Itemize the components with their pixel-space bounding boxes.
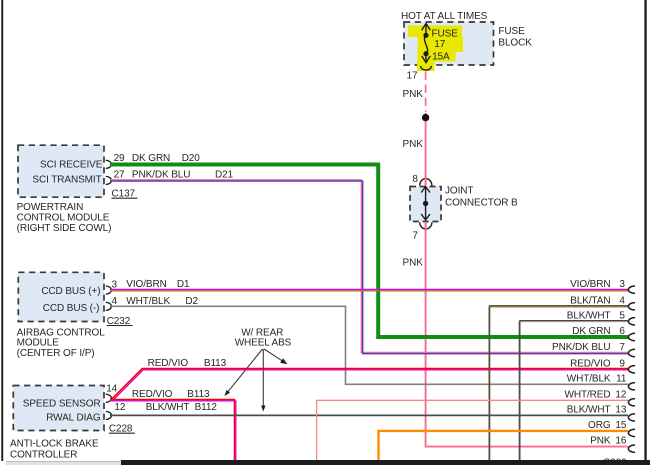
joint connector B box — [410, 187, 441, 222]
svg-text:VIO/BRN: VIO/BRN — [126, 279, 166, 290]
svg-text:6: 6 — [619, 326, 625, 337]
svg-text:BLOCK: BLOCK — [498, 38, 532, 49]
svg-text:15A: 15A — [432, 52, 450, 63]
svg-text:16: 16 — [615, 436, 626, 447]
fuse F17 15A symbol — [424, 24, 427, 62]
callout arrow to upper RED/VIO — [264, 349, 282, 361]
bottom gray bar — [6, 461, 121, 465]
svg-text:PNK: PNK — [590, 436, 611, 447]
PCM pin 29 connector arc — [106, 160, 112, 168]
svg-text:SPEED SENSOR: SPEED SENSOR — [23, 399, 101, 410]
svg-text:JOINT: JOINT — [445, 185, 473, 196]
svg-text:7: 7 — [619, 342, 625, 353]
wire RED/VIO B113 upper two-tone — [112, 369, 628, 400]
svg-text:D1: D1 — [177, 279, 190, 290]
wire VIO/BRN D1 two-tone — [110, 289, 628, 291]
speed pin 14 connector arc — [106, 394, 112, 402]
fuse block bottom connector arc — [421, 66, 432, 70]
wire BLK/WHT B112 — [110, 414, 628, 416]
svg-text:PNK/DK BLU: PNK/DK BLU — [132, 170, 190, 181]
wire PNK through connector gaps — [425, 176, 427, 187]
svg-text:SCI TRANSMIT: SCI TRANSMIT — [32, 175, 101, 186]
svg-text:BLK/WHT: BLK/WHT — [567, 310, 611, 321]
bottom black bar — [121, 460, 650, 465]
svg-text:B112: B112 — [195, 402, 218, 413]
svg-text:ORG: ORG — [588, 420, 611, 431]
svg-text:4: 4 — [619, 295, 625, 306]
wire PNK solid down to joint connector and PNK 16 row — [426, 113, 628, 447]
svg-text:B113: B113 — [187, 389, 210, 400]
svg-text:PNK: PNK — [403, 258, 424, 269]
svg-text:FUSE: FUSE — [432, 29, 459, 40]
wire DK GRN D20 thick green — [110, 165, 628, 338]
svg-text:CONNECTOR B: CONNECTOR B — [445, 197, 518, 208]
svg-text:PNK: PNK — [403, 89, 424, 100]
svg-text:WHT/BLK: WHT/BLK — [126, 296, 170, 307]
wire WHT/RED 12 (from bottom) — [317, 400, 628, 461]
svg-text:RED/VIO: RED/VIO — [132, 389, 173, 400]
wire WHT/BLK D2 gray — [110, 306, 628, 384]
svg-text:11: 11 — [616, 373, 627, 384]
svg-text:29: 29 — [114, 153, 125, 164]
airbag pin 3 connector arc — [106, 286, 112, 294]
svg-text:CCD BUS (-): CCD BUS (-) — [43, 303, 100, 314]
callout arrow to lower RED/VIO — [228, 349, 262, 391]
svg-text:27: 27 — [114, 170, 125, 181]
svg-text:HOT AT ALL TIMES: HOT AT ALL TIMES — [401, 11, 488, 22]
svg-text:SCI RECEIVE: SCI RECEIVE — [40, 160, 103, 171]
svg-text:BLK/TAN: BLK/TAN — [570, 295, 610, 306]
svg-text:FUSE: FUSE — [498, 26, 525, 37]
callout arrow to BLK/WHT — [262, 349, 264, 406]
svg-text:5: 5 — [619, 310, 625, 321]
svg-text:RWAL DIAG: RWAL DIAG — [46, 413, 101, 424]
wire ORG 15 (from bottom) — [379, 431, 629, 461]
wire PNK dashed from fuse — [425, 72, 427, 113]
wire BLK/TAN two-tone (from bottom) — [489, 305, 628, 307]
svg-text:DK GRN: DK GRN — [132, 153, 170, 164]
svg-text:RED/VIO: RED/VIO — [148, 358, 189, 369]
svg-text:14: 14 — [106, 384, 117, 395]
airbag control module box — [18, 272, 104, 321]
svg-text:12: 12 — [114, 402, 125, 413]
left page border — [1, 0, 3, 461]
wire BLK/WHT 5 (from bottom) — [519, 320, 628, 322]
svg-text:8: 8 — [412, 174, 418, 185]
svg-text:D20: D20 — [182, 153, 201, 164]
svg-text:ANTI-LOCK BRAKE: ANTI-LOCK BRAKE — [10, 438, 99, 449]
airbag pin 4 connector arc — [106, 302, 112, 310]
wire PNK/DK BLU D21 two-tone — [110, 180, 628, 353]
svg-text:DK GRN: DK GRN — [572, 326, 610, 337]
PCM pin 27 connector arc — [106, 176, 112, 184]
svg-text:15: 15 — [615, 420, 626, 431]
joint connector B bottom arc, pin 7 — [420, 222, 432, 229]
svg-text:VIO/BRN: VIO/BRN — [570, 279, 610, 290]
svg-text:PNK: PNK — [403, 139, 424, 150]
powertrain control module box — [18, 145, 104, 197]
svg-text:RED/VIO: RED/VIO — [570, 358, 611, 369]
svg-text:BLK/WHT: BLK/WHT — [567, 404, 611, 415]
svg-text:D2: D2 — [185, 296, 198, 307]
svg-text:17: 17 — [434, 39, 445, 50]
svg-text:13: 13 — [615, 404, 626, 415]
svg-text:BLK/WHT: BLK/WHT — [146, 402, 190, 413]
svg-text:(RIGHT SIDE COWL): (RIGHT SIDE COWL) — [17, 223, 112, 234]
svg-text:12: 12 — [615, 389, 626, 400]
joint connector B internal arrows — [425, 187, 427, 220]
svg-text:9: 9 — [619, 358, 625, 369]
svg-text:WHT/BLK: WHT/BLK — [567, 373, 611, 384]
svg-text:PNK/DK BLU: PNK/DK BLU — [552, 342, 610, 353]
svg-text:MODULE: MODULE — [17, 337, 60, 348]
splice junction dot — [422, 114, 429, 121]
svg-text:7: 7 — [412, 231, 418, 242]
speed pin 12 connector arc — [106, 411, 112, 419]
svg-text:CCD BUS (+): CCD BUS (+) — [41, 286, 100, 297]
fuse block box — [404, 22, 494, 65]
joint connector B top arc, pin 8 — [420, 179, 432, 186]
svg-text:CONTROLLER: CONTROLLER — [10, 449, 77, 460]
svg-text:WHEEL ABS: WHEEL ABS — [235, 338, 292, 349]
right page border — [644, 0, 646, 465]
svg-text:17: 17 — [407, 71, 418, 82]
svg-text:D21: D21 — [215, 170, 234, 181]
svg-text:3: 3 — [619, 279, 625, 290]
svg-text:B113: B113 — [204, 358, 227, 369]
svg-text:WHT/RED: WHT/RED — [565, 389, 611, 400]
wire RED/VIO B113 lower two-tone — [110, 400, 235, 461]
svg-text:(CENTER OF I/P): (CENTER OF I/P) — [17, 348, 95, 359]
speed sensor box — [13, 386, 104, 431]
fuse highlight (yellow highlighter) — [408, 26, 463, 72]
